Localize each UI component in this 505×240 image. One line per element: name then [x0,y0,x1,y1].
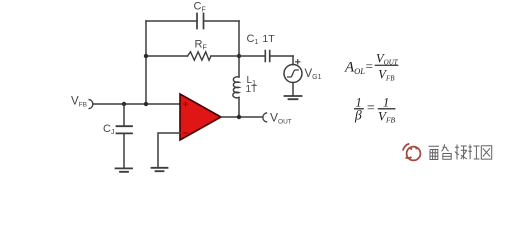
wire inverting input and stem to ground [158,133,180,167]
equation AOL = VOUT / VFB [344,51,399,82]
node junction feedback vertical on main wire [144,102,148,106]
equation 1/beta = 1/VFB [354,96,396,125]
wire right vertical lower (L1 to output node) [238,97,240,117]
terminal VFB [71,96,93,109]
watermark logo icon [403,144,421,161]
svg-text:CF: CF [194,1,206,14]
ground below CJ [116,168,133,171]
resistor RF [188,39,212,61]
inductor L1 value 1T [233,75,257,98]
svg-text:VFB: VFB [378,109,396,125]
wire output [221,116,262,118]
svg-text:VOUT: VOUT [270,111,292,126]
svg-text:1T: 1T [246,84,258,95]
svg-text:=: = [366,101,375,116]
capacitor C1 value 1T [239,33,293,62]
wire RF row [146,55,239,57]
voltage source VG1 [284,56,322,96]
capacitor CF [194,1,206,29]
watermark text mianbaoban shequ [429,144,492,159]
svg-text:RF: RF [195,39,207,52]
node junction left vertical / RF row [144,54,148,58]
terminal VOUT [263,111,292,126]
svg-text:CJ: CJ [103,123,114,136]
wire top feedback (CF row) [146,20,239,22]
ground at op-amp inverting input [152,168,168,171]
node junction output / L1 [237,115,241,119]
svg-text:β: β [354,108,362,123]
svg-text:VFB: VFB [378,67,395,82]
node junction CJ on main wire [122,102,126,106]
svg-text:AOL: AOL [344,60,365,77]
svg-text:VFB: VFB [71,96,87,109]
op-amp U1 [180,94,221,140]
wire left feedback vertical [145,21,147,104]
svg-text:C11T: C11T [247,33,276,46]
svg-text:VG1: VG1 [305,68,322,81]
wire right vertical upper (CF/RF node down to L1) [238,21,240,77]
capacitor CJ [103,104,132,168]
svg-text:VOUT: VOUT [376,51,399,66]
wire main input from VFB terminal to op-amp non-inverting input [94,103,181,105]
node junction right vertical / RF / C1 [237,54,241,58]
svg-text:=: = [365,59,374,74]
ground below VG1 [285,96,302,99]
